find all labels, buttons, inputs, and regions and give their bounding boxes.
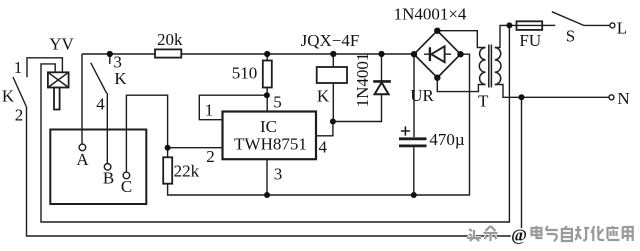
resistor 20k	[155, 49, 181, 57]
svg-text:20k: 20k	[157, 30, 183, 49]
relay JQX-4F coil box	[317, 67, 347, 83]
svg-text:S: S	[566, 26, 575, 45]
switch K (3-4) contact 3 tick	[109, 54, 111, 64]
wire YV coil top left down to bottom rail A and across to fuse node riser	[41, 25, 509, 222]
svg-text:1N4001: 1N4001	[353, 53, 372, 108]
svg-text:2: 2	[206, 147, 215, 166]
junction node relay top	[330, 51, 336, 57]
junction node diode top	[378, 51, 384, 57]
switch K (3-4) blade	[91, 63, 107, 93]
wire node 22k junction to IC pin 2	[168, 147, 223, 149]
diode D 1N4001 (flyback)	[373, 81, 391, 94]
svg-text:510: 510	[232, 64, 258, 83]
wire 510 top lead	[266, 54, 268, 61]
svg-text:1N4001×4: 1N4001×4	[394, 5, 467, 24]
svg-text:4: 4	[96, 95, 105, 114]
junction node bridge bottom vertex	[434, 75, 440, 81]
svg-text:4: 4	[319, 137, 328, 156]
wire relay node to diode D bottom	[333, 94, 382, 121]
probe terminal B	[104, 164, 111, 171]
svg-text:UR: UR	[410, 86, 434, 105]
capacitor 470u plates	[399, 139, 427, 146]
svg-text:5: 5	[273, 92, 282, 111]
wire switch K4 down to probe B	[106, 93, 108, 164]
transformer T core	[489, 45, 492, 88]
junction node 510 top	[264, 51, 270, 57]
wire transformer primary top to fuse	[495, 25, 517, 47]
junction node bridge left vertex	[411, 51, 417, 57]
wire bridge bottom vertex to transformer secondary bottom	[437, 78, 485, 92]
svg-text:1: 1	[205, 101, 214, 120]
svg-text:A: A	[76, 150, 89, 169]
wire diode D top lead	[381, 54, 383, 81]
junction node fuse input	[506, 22, 512, 28]
terminal L circle	[610, 23, 615, 28]
wire fuse to switch S contact	[542, 24, 555, 26]
wire main positive rail y=54	[82, 53, 414, 55]
wire IC pin 3 down to zero rail	[266, 159, 268, 195]
junction node on rail at K3	[107, 51, 113, 57]
junction node bridge top vertex	[434, 28, 440, 34]
svg-text:K: K	[317, 87, 330, 106]
junction node pin3 on zero rail	[264, 192, 270, 198]
svg-text:@: @	[511, 226, 527, 245]
junction node relay / pin4 / diode	[330, 119, 336, 125]
bridge inner diode symbol	[424, 46, 451, 62]
svg-text:L: L	[617, 19, 627, 38]
svg-text:K: K	[114, 69, 127, 88]
svg-text:K: K	[2, 87, 15, 106]
svg-text:3: 3	[274, 165, 283, 184]
junction node N line	[519, 94, 525, 100]
transformer T secondary winding	[479, 48, 485, 85]
junction node C-wire / 22k / pin2	[165, 145, 171, 151]
transformer T primary winding	[495, 48, 501, 85]
svg-text:22k: 22k	[174, 162, 200, 181]
svg-text:C: C	[121, 177, 132, 196]
svg-text:YV: YV	[49, 35, 74, 54]
watermark toutiao@dianqi zidonghua yingyong (vector fake CJK)	[467, 226, 633, 245]
wire probe C up over to 22k top node and down to 22k	[126, 95, 167, 172]
switch K (1-2) blade	[13, 77, 27, 107]
probe tank box A B C	[50, 130, 146, 205]
junction node pin5 / pin1 / 510	[264, 92, 270, 98]
wire from rail down to probe A	[81, 54, 83, 144]
svg-text:IC: IC	[260, 117, 277, 136]
probe terminal A	[79, 144, 86, 151]
junction node bridge right vertex	[457, 51, 463, 57]
IC TWH8751 box	[223, 112, 317, 160]
resistor 510	[263, 61, 272, 88]
junction node capacitor on zero rail	[411, 192, 417, 198]
wire 510 bottom lead through node into IC pin 5	[266, 88, 268, 112]
svg-text:JQX−4F: JQX−4F	[301, 31, 360, 50]
wire transformer primary bottom to terminal N	[495, 85, 609, 98]
switch S blade	[552, 12, 585, 26]
svg-text:N: N	[617, 89, 629, 108]
capacitor plus sign	[401, 126, 410, 135]
wire capacitor top lead from bridge left vertex	[413, 54, 415, 137]
wire switch K1 contact and bracket to YV coil top right	[27, 58, 62, 78]
wire capacitor bottom lead to zero rail	[413, 147, 415, 195]
probe terminal C	[123, 172, 130, 179]
resistor 22k	[163, 157, 172, 183]
svg-text:1: 1	[14, 58, 23, 77]
svg-text:470µ: 470µ	[429, 130, 465, 149]
wire IC pin 1 loop to pin-5 node	[199, 95, 267, 120]
svg-text:TWH8751: TWH8751	[234, 135, 307, 154]
terminal N circle	[609, 95, 614, 100]
svg-text:B: B	[103, 169, 114, 188]
svg-text:FU: FU	[519, 31, 541, 50]
fuse FU	[517, 21, 543, 30]
wire switch K2 contact down to bottom rail B across and up to N node	[27, 97, 522, 236]
svg-text:T: T	[478, 92, 489, 111]
wire IC pin 4 to relay node	[316, 122, 333, 136]
bridge rectifier UR diamond	[414, 31, 461, 78]
wire relay coil bottom lead	[332, 83, 334, 122]
solenoid valve YV coil box with X	[48, 72, 69, 109]
wire bridge top vertex to transformer secondary top	[437, 31, 485, 48]
wire switch S to terminal L	[584, 24, 610, 26]
svg-text:2: 2	[15, 106, 24, 125]
wire 22k bottom to zero rail across and up to bridge right vertex	[168, 54, 470, 195]
wire relay coil top lead	[332, 54, 334, 67]
